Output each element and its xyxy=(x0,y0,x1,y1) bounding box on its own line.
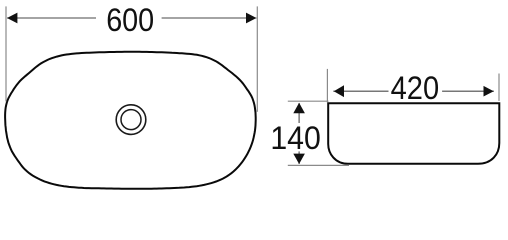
arrowhead 420 left xyxy=(334,85,344,97)
drain outer circle xyxy=(116,105,146,135)
extension line top (140) xyxy=(288,100,329,102)
drain inner circle xyxy=(121,110,141,130)
dimension line 140 bottom segment xyxy=(298,151,300,164)
dimension line 140 top segment xyxy=(298,103,300,123)
dimension line 600 right segment xyxy=(162,17,257,19)
arrowhead 600 right xyxy=(246,13,256,24)
dimension line 600 left segment xyxy=(7,17,96,19)
dimension line 420 right segment xyxy=(442,90,494,92)
extension line right (600) xyxy=(256,6,258,111)
basin side view outline xyxy=(327,103,500,164)
extension line left (600) xyxy=(5,6,7,101)
arrowhead 420 right xyxy=(484,86,494,97)
extension line right (420) xyxy=(498,74,500,101)
svg-text:420: 420 xyxy=(391,70,440,106)
svg-text:600: 600 xyxy=(106,2,154,38)
arrowhead 600 left xyxy=(7,13,17,24)
arrowhead 140 bottom xyxy=(293,154,305,164)
basin top view outline xyxy=(5,52,256,189)
arrowhead 140 top xyxy=(293,103,305,113)
svg-text:140: 140 xyxy=(270,120,321,156)
extension line bottom (140) xyxy=(288,164,349,166)
extension line left (420) xyxy=(326,69,328,103)
dimension line 420 left segment xyxy=(333,90,388,92)
